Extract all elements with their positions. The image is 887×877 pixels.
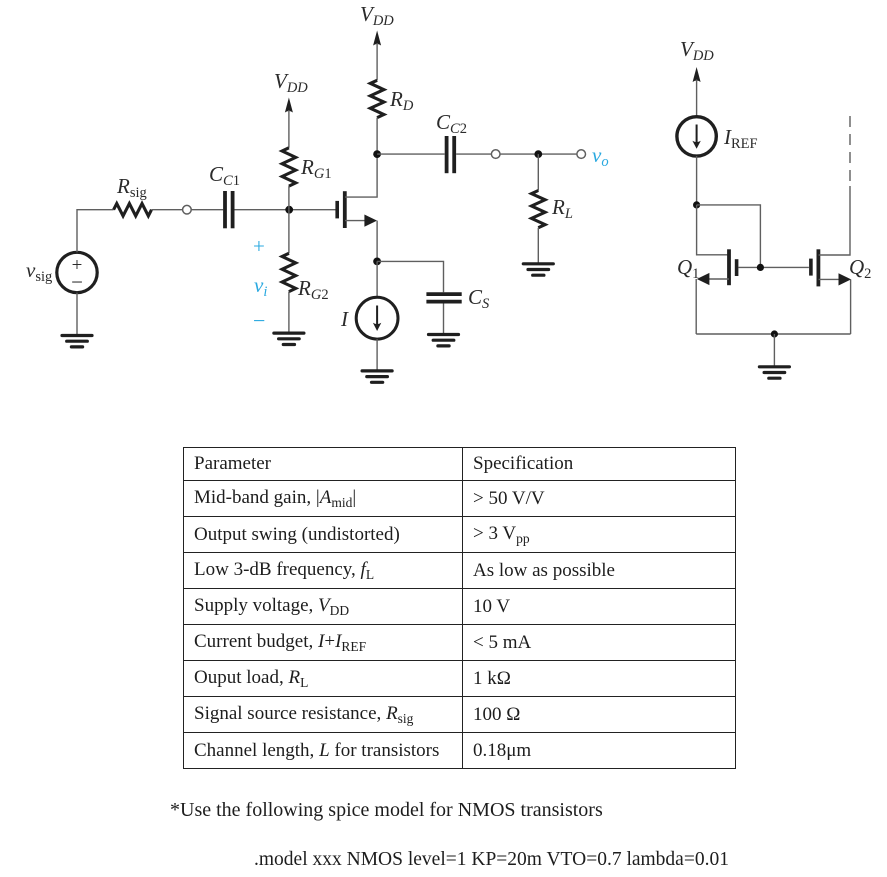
- wire M1 source with arrow: [345, 220, 366, 222]
- node open terminal vo: [577, 150, 586, 159]
- power VDD mirror: [680, 37, 714, 117]
- node gate junction: [285, 206, 293, 214]
- capacitor CC1: [225, 191, 233, 228]
- resistor RG2: [282, 253, 296, 291]
- node open terminal input: [183, 205, 192, 214]
- wire RD to drain node: [376, 118, 378, 155]
- power VDD for RG1: [274, 69, 308, 148]
- node bottom rail junction: [771, 330, 778, 337]
- transistor Q1 channel bar: [727, 249, 731, 285]
- wire gate node to RG2: [288, 210, 290, 254]
- wire vsig to ground: [76, 293, 78, 335]
- wire source node to CS: [377, 261, 443, 292]
- resistor RG1: [282, 148, 296, 186]
- resistor Rsig: [114, 204, 152, 216]
- svg-text:+: +: [253, 234, 265, 258]
- wire Q1 gate to mirror gate node: [739, 266, 809, 268]
- wire M1 drain: [345, 154, 377, 197]
- svg-text:−: −: [253, 308, 265, 333]
- svg-text:VDD: VDD: [360, 2, 394, 29]
- svg-text:CC2: CC2: [436, 110, 467, 137]
- svg-text:Q1: Q1: [677, 255, 699, 282]
- transistor M1 channel bar: [343, 191, 347, 228]
- current source IREF: [677, 117, 716, 156]
- transistor Q2 gate bar: [809, 259, 813, 276]
- wire IREF to mirror node: [696, 156, 698, 205]
- wire RG2 to ground: [288, 292, 290, 332]
- wire CS to ground: [443, 304, 445, 334]
- capacitor CS: [426, 294, 461, 302]
- svg-text:CC1: CC1: [209, 162, 240, 189]
- svg-text:vo: vo: [592, 143, 609, 170]
- svg-text:I: I: [340, 307, 349, 331]
- svg-text:vi: vi: [254, 273, 267, 300]
- transistor M1 gate bar: [335, 201, 339, 219]
- svg-text:IREF: IREF: [723, 125, 758, 152]
- wire Rsig to input node: [152, 209, 183, 211]
- wire dashed drain continuation: [849, 109, 851, 181]
- wire Q2 source with arrow: [819, 278, 840, 280]
- wire rail to ground: [773, 334, 775, 366]
- wire current source to ground: [376, 339, 378, 370]
- wire source node to current source: [376, 261, 378, 297]
- ground below RG2: [274, 332, 304, 335]
- wire terminal to CC1: [191, 209, 223, 211]
- svg-text:RG1: RG1: [300, 155, 332, 182]
- wire CC2 to output terminal: [456, 153, 491, 155]
- svg-text:VDD: VDD: [680, 37, 714, 64]
- ground below CS: [429, 333, 459, 336]
- svg-text:Q2: Q2: [849, 255, 871, 282]
- ground below vsig: [62, 334, 92, 337]
- transistor Q2 channel bar: [817, 249, 821, 286]
- svg-text:RL: RL: [551, 195, 573, 222]
- node mirror junction: [693, 201, 700, 208]
- wire mirror bottom rail: [696, 333, 850, 335]
- wire drain node to CC2: [377, 153, 445, 155]
- wire RG1 to gate node: [288, 186, 290, 210]
- wire mirror node down to Q1 drain: [697, 205, 729, 255]
- wire RL to ground: [537, 228, 539, 263]
- ground mirror: [759, 365, 789, 368]
- source vsig: [57, 252, 97, 294]
- wire Q2 drain: [819, 186, 850, 255]
- node gate rail junction: [757, 264, 764, 271]
- wire Q1 source with arrow: [708, 278, 729, 280]
- power VDD for RD: [360, 2, 394, 80]
- wire vsig to Rsig: [77, 210, 114, 253]
- resistor RD: [370, 80, 384, 117]
- wire diode connection to gates: [697, 205, 761, 268]
- wire CC1 to gate node: [235, 209, 338, 211]
- svg-text:RG2: RG2: [297, 276, 329, 303]
- node RL junction: [534, 150, 542, 158]
- svg-text:Rsig: Rsig: [116, 174, 147, 201]
- wire to RL node: [500, 153, 577, 155]
- svg-text:−: −: [71, 270, 83, 294]
- ground below current source: [362, 369, 392, 372]
- node source junction: [373, 258, 381, 266]
- node open terminal mid: [491, 150, 500, 159]
- wire RL node down: [537, 154, 539, 190]
- svg-text:RD: RD: [389, 87, 414, 114]
- svg-text:VDD: VDD: [274, 69, 308, 96]
- resistor RL: [532, 191, 546, 228]
- transistor Q1 gate bar: [735, 259, 739, 276]
- svg-text:vsig: vsig: [26, 258, 52, 285]
- ground below RL: [523, 262, 553, 265]
- capacitor CC2: [447, 136, 455, 173]
- node drain junction: [373, 150, 381, 158]
- svg-text:CS: CS: [468, 285, 490, 312]
- current source I: [356, 297, 398, 339]
